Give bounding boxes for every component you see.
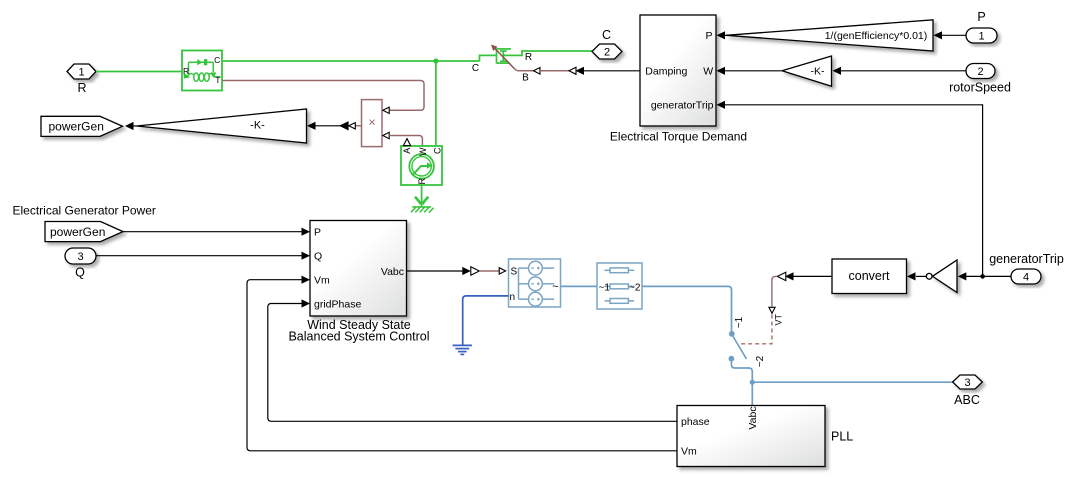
subsystem PLL: [677, 406, 825, 467]
wire converter to gain: [315, 125, 341, 127]
svg-text:3: 3: [964, 377, 970, 389]
wire gain to P: [718, 34, 727, 36]
GROUP: green machine circuit: [41, 28, 640, 213]
product input port triangle (lower): [383, 132, 389, 138]
svg-text:2: 2: [604, 47, 610, 59]
svg-text:3: 3: [77, 251, 83, 263]
wire junction to port ABC: [752, 381, 952, 383]
machine block (coil + diode): [182, 51, 222, 91]
svg-text:4: 4: [1023, 272, 1029, 284]
svg-text:Q: Q: [75, 266, 85, 280]
svg-text:~: ~: [552, 281, 558, 293]
source S port triangle: [499, 268, 505, 274]
GROUP: WSS: [13, 204, 678, 451]
svg-text:powerGen: powerGen: [50, 225, 105, 239]
svg-text:Vm: Vm: [681, 446, 697, 458]
wire impedance to breaker: [642, 286, 732, 331]
connection port 2 (C): [592, 44, 622, 59]
wire product lower input to sensor W (brown): [389, 136, 422, 147]
gain -K- (rotorSpeed): [782, 56, 832, 86]
connection port 1 (R): [67, 64, 96, 79]
Simulink-PS converter pair (Vabc): [462, 267, 471, 275]
svg-text:R: R: [417, 178, 427, 185]
arrowhead into generatorTrip port: [717, 101, 726, 109]
svg-text:Electrical Generator Power: Electrical Generator Power: [13, 204, 156, 218]
switch B port PS triangle: [534, 68, 541, 75]
breaker lower lead: [731, 360, 752, 382]
svg-text:Balanced System Control: Balanced System Control: [288, 330, 429, 344]
wire convert output: [794, 275, 833, 277]
svg-text:~2: ~2: [629, 283, 641, 294]
wire generatorTrip: [725, 105, 983, 277]
wire PLL Vm feedback: [247, 280, 677, 451]
junction node on green wire: [433, 58, 438, 63]
product output PS triangle: [349, 123, 356, 129]
inport 1 (P): [966, 28, 997, 43]
svg-text:P: P: [314, 227, 321, 239]
wire down to sensor C: [435, 61, 437, 146]
svg-text:rotorSpeed: rotorSpeed: [949, 80, 1011, 94]
svg-text:Vabc: Vabc: [747, 406, 759, 429]
svg-text:ABC: ABC: [954, 393, 980, 407]
wire junction to PLL Vabc: [751, 382, 753, 405]
svg-text:2: 2: [977, 66, 983, 78]
svg-text:phase: phase: [681, 416, 710, 428]
arrowhead into gain3: [833, 67, 842, 75]
arrowhead into Vm: [302, 276, 311, 284]
wire machine C to switch (green main): [222, 60, 480, 62]
three-phase impedance block: [597, 263, 642, 309]
svg-text:T: T: [215, 75, 220, 85]
wire NOT to convert: [916, 275, 926, 277]
svg-text:generatorTrip: generatorTrip: [651, 100, 714, 112]
svg-text:R: R: [525, 52, 532, 63]
junction node generatorTrip: [980, 274, 985, 279]
wire source n to ground (dark blue): [463, 296, 509, 345]
inport 3 (Q): [65, 248, 96, 264]
sensor A port PS triangle: [403, 139, 410, 146]
svg-text:×: ×: [368, 114, 376, 129]
three-phase voltage source block: [509, 259, 561, 307]
svg-text:n: n: [510, 292, 516, 303]
goto tag powerGen: [41, 116, 123, 136]
svg-text:S: S: [511, 267, 518, 278]
product input port triangle (upper): [383, 107, 389, 113]
svg-text:Vm: Vm: [314, 275, 330, 287]
subsystem Electrical Torque Demand: [640, 15, 716, 126]
svg-text:VT: VT: [773, 314, 783, 326]
product block PS multiply: [362, 100, 383, 147]
switch device (green): [480, 48, 593, 63]
junction node ABC: [750, 380, 755, 385]
wire gain to goto: [133, 125, 137, 127]
arrowhead into gridPhase: [302, 299, 311, 307]
wire gain3 to W: [725, 70, 781, 72]
svg-text:A: A: [402, 148, 412, 154]
electrical ground (dark blue): [453, 345, 472, 354]
wire port4 to NOT: [966, 275, 1011, 277]
wire Q: [96, 255, 303, 257]
wire machine T to product (brown): [222, 81, 424, 111]
svg-text:R: R: [183, 66, 189, 76]
svg-text:convert: convert: [849, 269, 891, 283]
product output stub: [356, 125, 362, 127]
svg-text:1: 1: [978, 31, 984, 43]
PS-Simulink converter arrow (filled): [339, 121, 349, 130]
svg-text:PLL: PLL: [831, 430, 853, 444]
wire Vabc out of WSS: [407, 270, 463, 272]
svg-text:1: 1: [78, 67, 84, 79]
arrowhead into Q: [302, 252, 311, 260]
svg-text:C: C: [214, 55, 220, 65]
GROUP: convert: [741, 252, 1064, 344]
svg-text:R: R: [77, 81, 86, 95]
sensor block (power sensor): [401, 146, 442, 185]
GROUP: ETD: [610, 10, 1011, 277]
svg-text:~1: ~1: [734, 316, 745, 328]
gain -K- (power): [137, 109, 307, 143]
svg-text:1/(genEfficiency*0.01): 1/(genEfficiency*0.01): [825, 30, 928, 42]
svg-text:~1: ~1: [599, 283, 611, 294]
svg-text:~2: ~2: [755, 355, 766, 367]
dashed control wire VT: [741, 315, 772, 344]
arrowhead into W port: [717, 67, 726, 75]
svg-text:B: B: [522, 73, 529, 84]
GROUP: PLL: [677, 406, 853, 467]
svg-text:powerGen: powerGen: [49, 119, 104, 133]
wire Damping to converter (black): [584, 70, 640, 72]
brown wire to source S: [479, 270, 499, 272]
block convert: [832, 259, 907, 294]
sensor R lead to ground: [421, 185, 423, 207]
switch actuator arrow (brown): [493, 46, 515, 69]
wire B to converter (brown): [540, 70, 569, 72]
svg-text:C: C: [472, 63, 479, 74]
wire powerGen to P: [123, 231, 303, 233]
VT port triangle (down): [769, 307, 775, 313]
svg-text:Damping: Damping: [645, 66, 687, 78]
arrowhead into gain: [307, 122, 316, 130]
svg-text:-K-: -K-: [250, 120, 265, 132]
wire PLL phase feedback: [268, 304, 677, 422]
breaker blade: [733, 336, 747, 360]
Simulink-PS converter pair (VT): [785, 272, 794, 280]
svg-text:C: C: [602, 28, 611, 42]
svg-text:Vabc: Vabc: [381, 266, 404, 278]
svg-text:-K-: -K-: [811, 66, 826, 78]
inport 2 (rotorSpeed): [966, 64, 995, 79]
brown wire to VT triangle: [772, 276, 777, 306]
Simulink-PS converter pair at B: [569, 67, 576, 74]
svg-text:gridPhase: gridPhase: [314, 298, 361, 310]
switch B lead (brown): [515, 69, 534, 71]
arrowhead into goto: [125, 122, 134, 130]
breaker contact 2: [729, 356, 735, 362]
GROUP: three-phase: [407, 259, 983, 407]
wire port1 to machine R: [96, 71, 182, 73]
arrowhead into P port: [717, 31, 726, 39]
svg-text:Electrical Torque Demand: Electrical Torque Demand: [610, 129, 747, 143]
arrowhead into NOT: [958, 272, 967, 280]
breaker contact 1: [729, 331, 735, 337]
from tag powerGen: [45, 222, 123, 242]
wire port1 to gain1: [942, 34, 966, 36]
svg-text:generatorTrip: generatorTrip: [989, 252, 1064, 266]
wire port2 to gain3: [841, 70, 966, 72]
svg-text:P: P: [705, 30, 712, 42]
inport 4 (generatorTrip): [1011, 269, 1041, 284]
subsystem Wind Steady State Balanced System Control: [310, 221, 407, 317]
svg-text:Q: Q: [314, 251, 322, 263]
connection port 3 (ABC): [953, 375, 983, 389]
arrowhead into P: [302, 228, 311, 236]
svg-text:P: P: [977, 10, 985, 24]
electrical reference ground (green): [411, 197, 434, 213]
svg-text:W: W: [703, 66, 713, 78]
arrowhead into convert: [907, 272, 916, 280]
NOT gate: [933, 260, 958, 293]
gain 1/(genEfficiency*0.01): [726, 20, 933, 51]
wire source to impedance: [561, 285, 598, 287]
arrowhead into gain1: [934, 31, 943, 39]
svg-text:C: C: [432, 147, 442, 154]
svg-text:W: W: [418, 147, 428, 156]
